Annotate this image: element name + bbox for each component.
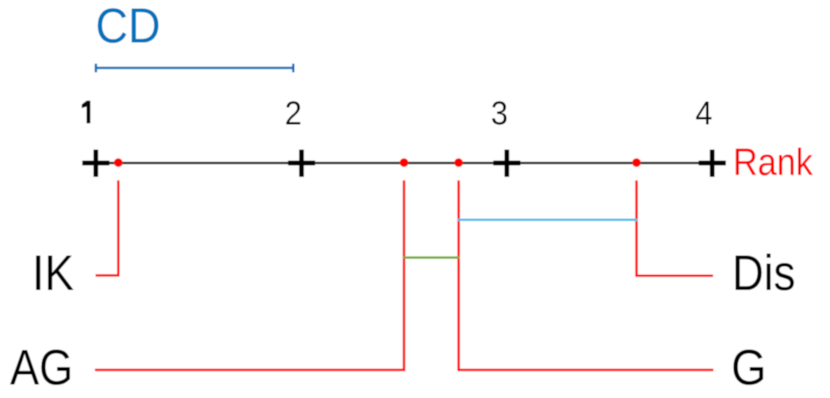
rank dot G (454, 158, 463, 167)
rank dot AG (400, 158, 409, 167)
svg-text:Rank: Rank (733, 140, 814, 183)
svg-text:G: G (731, 341, 766, 396)
axis tick label 1 (custom helvetica-style glyph) (82, 101, 91, 124)
axis line (83, 162, 725, 164)
connector G (459, 180, 714, 370)
rank dot IK (114, 158, 123, 167)
svg-text:4: 4 (695, 94, 712, 131)
svg-text:CD: CD (96, 0, 161, 53)
svg-text:3: 3 (491, 94, 508, 131)
connector AG (95, 180, 404, 370)
axis tick 4 (699, 150, 726, 177)
connector IK (96, 180, 119, 275)
axis tick 2 (288, 150, 315, 177)
axis tick 3 (493, 150, 520, 177)
clique line green (AG-G) (403, 256, 460, 258)
connector Dis (637, 180, 714, 275)
svg-text:IK: IK (32, 246, 74, 302)
svg-text:2: 2 (285, 94, 302, 131)
CD interval bar (96, 64, 293, 73)
axis tick 1 (82, 150, 109, 177)
svg-text:Dis: Dis (732, 245, 796, 301)
svg-text:AG: AG (10, 339, 73, 395)
rank dot Dis (632, 158, 641, 167)
clique line cyan (G-Dis) (458, 219, 638, 221)
